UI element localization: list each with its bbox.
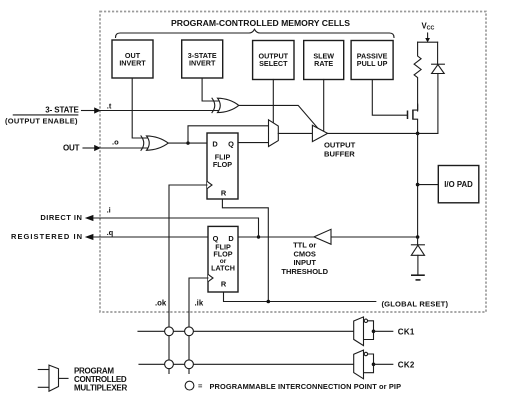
wire XOR2 output to FF1 D (168, 142, 207, 144)
brace under title (116, 29, 395, 37)
ground symbol (411, 275, 425, 280)
OUT input arrow (83, 145, 101, 151)
legend label PROGRAM CONTROLLED MULTIPLEXER (74, 367, 128, 393)
svg-text:INPUT: INPUT (293, 258, 316, 267)
output buffer triangle (312, 125, 327, 141)
PIP circle ik-ck2 (185, 360, 194, 369)
svg-text:MULTIPLEXER: MULTIPLEXER (74, 383, 128, 392)
wire XOR1 output to output buffer enable (239, 105, 318, 128)
svg-text:.q: .q (107, 228, 114, 237)
junction node global reset (267, 300, 271, 304)
wire pad column (417, 133, 419, 237)
wire 3-STATE INVERT to XOR1 top input (202, 78, 219, 101)
clock line CK1 (138, 330, 354, 332)
junction node (186, 141, 189, 144)
I/O PAD box (438, 166, 479, 203)
wire .o line (100, 147, 149, 149)
label 3- STATE (OUTPUT ENABLE) (5, 106, 79, 126)
svg-text:.ok: .ok (155, 299, 167, 308)
svg-text:=: = (198, 382, 203, 391)
svg-text:FLOP: FLOP (213, 160, 232, 169)
XOR gate U1 (3-state invert) (212, 98, 239, 112)
dashed border of IOB block (100, 12, 486, 313)
protection diode D2 to ground (411, 237, 424, 275)
legend PIP circle (185, 381, 194, 390)
svg-text:PULL UP: PULL UP (357, 59, 388, 68)
svg-text:PROGRAMMABLE INTERCONNECTION P: PROGRAMMABLE INTERCONNECTION POINT or PI… (210, 382, 402, 391)
label OUTPUT BUFFER (324, 140, 356, 158)
wire input buffer to FF2 D (238, 236, 314, 238)
svg-text:.t: .t (107, 101, 112, 110)
svg-text:R: R (221, 280, 227, 289)
svg-text:3- STATE: 3- STATE (45, 106, 79, 115)
junction node pad top (416, 132, 420, 136)
svg-text:.i: .i (107, 206, 111, 215)
wire pad to input buffer (331, 236, 418, 238)
resistor R (passive pull-up) (414, 42, 421, 110)
svg-text:OUTPUT: OUTPUT (324, 140, 356, 149)
wire to I/O pad (418, 184, 439, 186)
svg-text:SELECT: SELECT (259, 59, 288, 68)
PIP circle ok-ck1 (165, 327, 174, 336)
DIRECT IN arrow (85, 215, 94, 221)
svg-text:D: D (212, 139, 218, 148)
Vcc stub wire (427, 33, 429, 39)
Vcc arrowhead (425, 38, 430, 42)
wire FF2 clock .ik (189, 278, 208, 374)
legend label PIP (198, 382, 401, 391)
svg-text:CK1: CK1 (398, 328, 415, 337)
flip flop FF2 (208, 226, 238, 292)
wire OUTPUT SELECT to mux (272, 80, 274, 123)
label TTL or CMOS INPUT THRESHOLD (281, 241, 328, 277)
svg-text:INVERT: INVERT (119, 59, 146, 68)
wire resistor to transistor drain (417, 104, 419, 111)
svg-text:OUT: OUT (63, 143, 80, 152)
svg-text:THRESHOLD: THRESHOLD (281, 267, 328, 276)
svg-text:RATE: RATE (314, 59, 333, 68)
wire output buffer to pad column (328, 132, 438, 134)
wire from PASSIVE PULL UP to transistor gate (372, 80, 407, 116)
clock line CK2 (139, 363, 354, 365)
wire direct branch over FF1 to mux (188, 126, 269, 143)
svg-text:(GLOBAL RESET): (GLOBAL RESET) (382, 299, 449, 308)
svg-text:Q: Q (228, 139, 234, 148)
junction node .i branch (257, 235, 260, 238)
svg-text:DIRECT IN: DIRECT IN (40, 213, 82, 222)
protection diode D1 to Vcc (432, 42, 445, 133)
XOR gate U2 (out invert) (141, 136, 168, 150)
wire FF1 R to global reset (222, 199, 268, 302)
wire SLEW RATE to output buffer (323, 80, 325, 132)
wire .q line (94, 236, 208, 238)
memory cell box OUTPUT SELECT (253, 41, 294, 80)
PIP circle ok-ck2 (165, 360, 174, 369)
3-STATE input arrow (82, 107, 101, 113)
input buffer triangle (314, 229, 331, 244)
svg-text:CC: CC (427, 26, 435, 32)
svg-text:R: R (221, 189, 227, 198)
Vcc rail wire (418, 41, 438, 43)
wire FF1 Q to mux (238, 142, 269, 144)
junction node input line (416, 235, 420, 239)
wire FF2 R global reset line (224, 292, 376, 302)
memory cell box PASSIVE PULL UP (351, 41, 393, 80)
flip flop FF1 (207, 133, 238, 199)
wire mux to output buffer (278, 132, 312, 134)
svg-text:TTL or: TTL or (293, 241, 316, 250)
memory cell box SLEW RATE (304, 41, 344, 80)
REGISTERED IN arrow (85, 234, 94, 240)
svg-text:INVERT: INVERT (189, 59, 216, 68)
wire OUT INVERT to XOR2 top input (132, 78, 148, 138)
legend multiplexer symbol (38, 365, 68, 391)
Vcc label (422, 21, 435, 31)
svg-text:BUFFER: BUFFER (324, 150, 355, 159)
memory cell box 3-STATE INVERT (182, 40, 223, 78)
memory cell box OUT INVERT (112, 40, 153, 78)
PIP circle ik-ck1 (185, 327, 194, 336)
CK2 multiplexer (354, 350, 415, 379)
wire FF1 clock .ok (169, 185, 207, 374)
svg-text:.o: .o (112, 138, 119, 147)
svg-text:CMOS: CMOS (293, 249, 316, 258)
wire .t line (100, 110, 219, 112)
svg-text:PROGRAM-CONTROLLED MEMORY CELL: PROGRAM-CONTROLLED MEMORY CELLS (171, 19, 351, 28)
wire .i branch (94, 218, 259, 237)
svg-text:I/O PAD: I/O PAD (444, 180, 473, 189)
junction node I/O pad (416, 183, 420, 187)
svg-text:REGISTERED IN: REGISTERED IN (11, 232, 82, 241)
svg-text:(OUTPUT ENABLE): (OUTPUT ENABLE) (5, 116, 78, 125)
svg-text:LATCH: LATCH (211, 264, 235, 273)
output select mux M1 (269, 120, 279, 147)
svg-text:CK2: CK2 (398, 361, 415, 370)
CK1 multiplexer (354, 317, 415, 346)
svg-text:.ik: .ik (195, 299, 204, 308)
pull-up transistor Q1 (MOSFET) (408, 105, 418, 133)
